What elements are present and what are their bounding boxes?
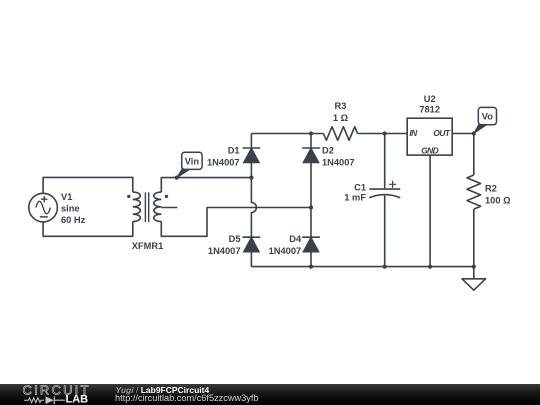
wire U2 GND lead bbox=[429, 155, 431, 267]
core bbox=[145, 192, 148, 222]
svg-text:D5: D5 bbox=[229, 234, 241, 244]
wire R2 top lead bbox=[473, 134, 475, 176]
wire D4 anode to bottom rail bbox=[310, 252, 312, 267]
wire top rail left (D1 top to R3) bbox=[251, 134, 323, 149]
svg-text:C1: C1 bbox=[354, 183, 366, 193]
wire C1 bottom lead bbox=[384, 196, 386, 267]
wire ground stub bbox=[473, 267, 475, 279]
svg-text:sine: sine bbox=[61, 204, 80, 214]
wire D2 anode to right-mid junction bbox=[310, 163, 312, 237]
wire left branch with hop over bottom-secondary wire bbox=[251, 178, 256, 238]
node Vo flag bbox=[474, 107, 497, 133]
wire secondary bottom lead jog to bridge right mid bbox=[161, 208, 311, 237]
wire R2 bottom lead bbox=[473, 209, 475, 267]
secondary winding bbox=[154, 192, 162, 221]
wire V1 bottom loop bbox=[43, 222, 133, 237]
logo resistor zigzag bbox=[24, 398, 44, 403]
footer bar bbox=[0, 384, 540, 405]
wire R3 right to U2 IN bbox=[358, 133, 408, 135]
svg-text:Vo: Vo bbox=[482, 112, 494, 122]
svg-text:D2: D2 bbox=[322, 145, 334, 155]
resistor R3 bbox=[324, 127, 358, 141]
wire C1 top lead bbox=[384, 134, 386, 189]
svg-text:http://circuitlab.com/c6f5zzcw: http://circuitlab.com/c6f5zzcww3yfb bbox=[115, 393, 258, 403]
svg-text:7812: 7812 bbox=[419, 105, 440, 115]
op-amp U2 regulator box bbox=[407, 118, 452, 155]
svg-text:OUT: OUT bbox=[433, 128, 450, 138]
phase dot primary bbox=[127, 195, 130, 198]
svg-text:D4: D4 bbox=[289, 234, 302, 244]
svg-text:U2: U2 bbox=[424, 94, 436, 104]
svg-text:R3: R3 bbox=[335, 101, 347, 111]
svg-text:R2: R2 bbox=[485, 184, 497, 194]
wire V1 top loop bbox=[43, 177, 133, 193]
svg-text:1 mF: 1 mF bbox=[344, 193, 366, 203]
svg-text:1 Ω: 1 Ω bbox=[333, 113, 349, 123]
diode D1 bbox=[243, 148, 261, 163]
svg-text:V1: V1 bbox=[61, 192, 72, 202]
node junction dots bbox=[175, 131, 476, 268]
primary winding bbox=[133, 192, 141, 221]
ground bbox=[462, 279, 486, 290]
phase dot secondary bbox=[165, 195, 168, 198]
wire U2 OUT to Vo node bbox=[452, 133, 474, 135]
svg-text:D1: D1 bbox=[228, 145, 240, 155]
svg-text:1N4007: 1N4007 bbox=[269, 246, 302, 256]
transformer XFMR1 bbox=[133, 192, 162, 222]
svg-text:1N4007: 1N4007 bbox=[322, 157, 355, 167]
source V1 bbox=[29, 193, 58, 222]
node Vin flag bbox=[177, 152, 202, 178]
svg-text:1N4007: 1N4007 bbox=[208, 246, 241, 256]
wire D2 top lead bbox=[310, 134, 312, 149]
svg-text:Vin: Vin bbox=[185, 156, 200, 166]
diode D4 bbox=[302, 237, 320, 252]
diode D5 bbox=[243, 237, 261, 252]
svg-text:XFMR1: XFMR1 bbox=[132, 241, 164, 251]
diode D2 bbox=[302, 148, 320, 163]
svg-text:LAB: LAB bbox=[66, 394, 89, 405]
resistor R2 bbox=[467, 175, 481, 209]
svg-text:1N4007: 1N4007 bbox=[207, 157, 240, 167]
wire D5 anode to bottom rail bbox=[250, 252, 252, 267]
logo diode bbox=[46, 396, 54, 404]
svg-text:GND: GND bbox=[421, 146, 438, 156]
wire secondary center-tap stub bbox=[161, 207, 177, 209]
wire secondary top lead to bridge bbox=[161, 178, 251, 193]
svg-text:100 Ω: 100 Ω bbox=[485, 196, 511, 206]
svg-text:60 Hz: 60 Hz bbox=[61, 215, 86, 225]
capacitor C1 bbox=[369, 181, 400, 198]
wire D1 anode to left-mid junction bbox=[250, 163, 252, 178]
wire bottom rail bbox=[251, 266, 473, 268]
